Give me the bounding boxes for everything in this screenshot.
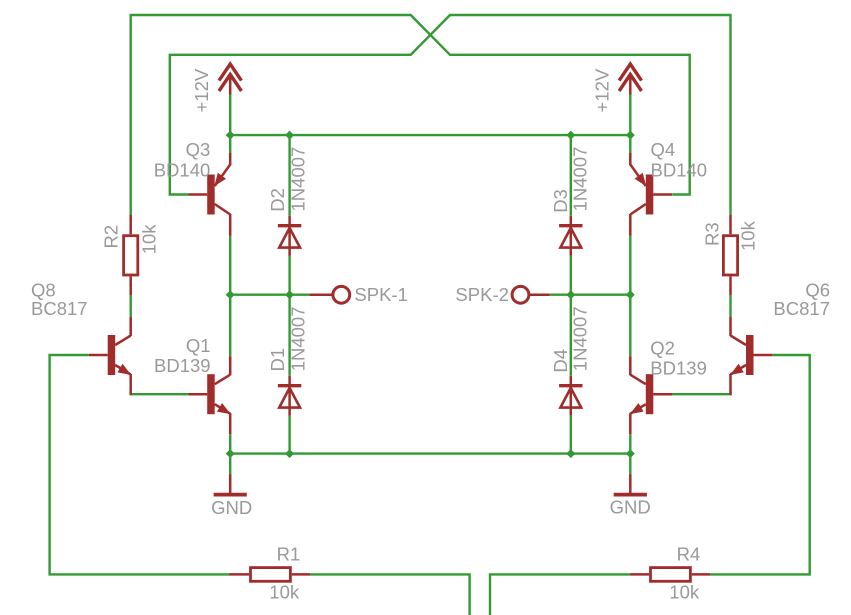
wire +12V rail to Q4 emitter — [629, 135, 631, 153]
wire R1 right to bottom edge — [310, 574, 470, 615]
resistor R3 10k — [702, 215, 759, 295]
junction B2 — [285, 290, 294, 299]
transistor Q2 BD139 (NPN) — [630, 337, 707, 434]
svg-text:BC817: BC817 — [31, 298, 88, 319]
ground GND right — [610, 454, 651, 518]
svg-text:Q2: Q2 — [650, 337, 675, 358]
diode D4 1N4007 — [550, 295, 591, 454]
wire Q6 base to R4 right — [710, 355, 810, 574]
svg-text:1N4007: 1N4007 — [569, 306, 590, 371]
transistor Q3 BD140 (PNP) — [154, 139, 230, 236]
svg-text:D1: D1 — [267, 348, 288, 372]
svg-text:D3: D3 — [550, 189, 571, 213]
svg-text:+12V: +12V — [591, 68, 612, 112]
svg-text:BC817: BC817 — [773, 298, 830, 319]
wire Q3 collector to SPK-1 node — [229, 236, 231, 295]
terminal SPK-1 — [309, 284, 408, 305]
svg-text:R1: R1 — [277, 544, 301, 565]
svg-text:SPK-2: SPK-2 — [455, 284, 508, 305]
svg-text:1N4007: 1N4007 — [288, 147, 309, 212]
wire R2 to Q8 collector — [129, 295, 131, 317]
svg-text:BD139: BD139 — [154, 355, 211, 376]
ground GND left — [211, 454, 252, 518]
+12V supply left — [191, 64, 241, 135]
diode D1 1N4007 — [267, 295, 309, 454]
svg-text:D2: D2 — [267, 188, 288, 212]
junction A4 — [626, 131, 635, 140]
svg-text:10k: 10k — [669, 582, 700, 603]
wire Q8 emitter to Q1 base — [131, 391, 189, 394]
junction A2 — [285, 131, 294, 140]
wire net FB2: Q3 base to R3 top (top crossover) — [170, 15, 731, 215]
wire +12V rail (top) — [230, 134, 630, 136]
wire Q2 emitter to GND rail — [629, 434, 631, 453]
wire SPK-2 node — [550, 294, 631, 296]
svg-text:Q4: Q4 — [651, 139, 676, 160]
svg-text:Q1: Q1 — [186, 335, 211, 356]
resistor R1 10k — [251, 544, 301, 603]
svg-text:BD140: BD140 — [154, 160, 211, 181]
svg-text:+12V: +12V — [191, 68, 212, 112]
wire SPK-1 node — [230, 294, 309, 296]
svg-text:R3: R3 — [702, 222, 723, 246]
transistor Q6 BC817 (NPN) — [730, 280, 830, 396]
diode D2 1N4007 — [267, 135, 309, 295]
transistor Q8 BC817 (NPN) — [31, 280, 131, 396]
svg-text:SPK-1: SPK-1 — [354, 284, 407, 305]
junction C4 — [626, 449, 635, 458]
svg-text:Q3: Q3 — [186, 139, 211, 160]
wire +12V rail to Q3 emitter — [229, 135, 231, 153]
svg-text:10k: 10k — [269, 582, 300, 603]
wire SPK-2 node to Q2 collector — [629, 295, 631, 357]
svg-text:R2: R2 — [101, 225, 122, 249]
wire net FB1: R2/Q8 collector to Q4 base (top crossover) — [131, 15, 690, 215]
resistor R4 10k — [651, 544, 701, 603]
diode D3 1N4007 — [550, 135, 591, 295]
wire Q1 emitter to GND rail — [229, 434, 231, 453]
wire Q8 base to R1 left — [50, 355, 230, 574]
wire SPK-1 node to Q1 collector — [229, 295, 231, 357]
+12V supply right — [591, 64, 641, 135]
transistor Q4 BD140 (PNP) — [630, 139, 707, 236]
wire GND rail (bottom) — [230, 452, 630, 454]
svg-text:10k: 10k — [738, 220, 759, 251]
svg-text:BD140: BD140 — [651, 160, 708, 181]
svg-text:BD139: BD139 — [650, 357, 707, 378]
svg-text:10k: 10k — [139, 224, 160, 255]
terminal SPK-2 — [455, 284, 549, 305]
svg-text:R4: R4 — [677, 544, 701, 565]
resistor R2 10k — [101, 215, 160, 295]
svg-text:1N4007: 1N4007 — [569, 147, 590, 212]
resistor R4 10k pins — [630, 573, 710, 576]
junction C1 — [226, 449, 235, 458]
junction C2 — [285, 449, 294, 458]
junction B3 — [566, 290, 575, 299]
svg-text:1N4007: 1N4007 — [288, 306, 309, 371]
wire Q4 collector to SPK-2 node — [629, 236, 631, 295]
svg-text:GND: GND — [610, 497, 651, 518]
wire Q6 emitter to Q2 base — [672, 391, 731, 394]
transistor Q1 BD139 (NPN) — [154, 335, 231, 434]
junction A1 — [226, 131, 235, 140]
wire R4 left to bottom edge — [490, 574, 630, 615]
resistor R1 10k pins — [229, 573, 310, 576]
svg-text:GND: GND — [211, 497, 252, 518]
junction A3 — [566, 131, 575, 140]
wire R3 to Q6 collector — [729, 295, 731, 317]
junction B1 — [226, 290, 235, 299]
junction C3 — [566, 449, 575, 458]
svg-text:D4: D4 — [550, 349, 571, 373]
junction B4 — [626, 290, 635, 299]
